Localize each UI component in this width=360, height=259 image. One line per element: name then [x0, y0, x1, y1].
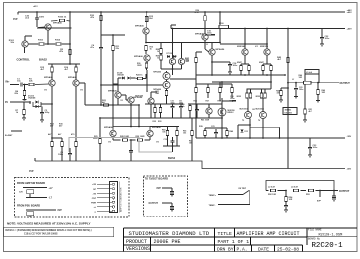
svg-text:TEMP-: TEMP- [209, 205, 216, 207]
svg-text:68R: 68R [156, 93, 160, 95]
svg-text:TEMP+: TEMP+ [209, 195, 217, 197]
svg-text:41V: 41V [255, 45, 259, 48]
svg-text:2k2: 2k2 [149, 18, 153, 20]
svg-text:1V2: 1V2 [174, 56, 177, 58]
svg-text:47k: 47k [59, 50, 63, 53]
svg-text:4k7: 4k7 [65, 68, 69, 71]
svg-text:10k: 10k [10, 42, 14, 44]
svg-text:STUDIOMASTER DIAMOND LTD: STUDIOMASTER DIAMOND LTD [129, 230, 210, 237]
svg-text:-L7: -L7 [49, 198, 53, 200]
svg-text:TITLE: TITLE [218, 231, 233, 237]
svg-text:0R22: 0R22 [236, 96, 241, 98]
svg-text:MPSA06: MPSA06 [134, 55, 144, 58]
svg-text:BIAS2: BIAS2 [168, 157, 176, 160]
svg-text:1N4148: 1N4148 [117, 73, 124, 76]
svg-text:RS TRIP: RS TRIP [239, 188, 247, 190]
svg-text:IN+: IN+ [6, 81, 11, 84]
svg-text:100n: 100n [313, 147, 318, 149]
svg-text:8VP: 8VP [317, 201, 322, 203]
svg-text:100n: 100n [325, 38, 330, 40]
svg-text:1N4148: 1N4148 [28, 97, 36, 100]
svg-text:4k7: 4k7 [48, 133, 52, 136]
svg-text:1k: 1k [157, 57, 159, 59]
svg-text:R24 1k: R24 1k [136, 74, 143, 77]
svg-text:220R: 220R [93, 138, 98, 140]
svg-text:BOARD No: BOARD No [308, 238, 321, 241]
svg-text:0R47: 0R47 [237, 61, 243, 64]
svg-text:4k7: 4k7 [58, 133, 62, 136]
svg-text:R33: R33 [158, 121, 161, 123]
svg-text:8VP: 8VP [58, 210, 63, 212]
svg-text:0R22: 0R22 [255, 96, 260, 98]
svg-text:MPSA56: MPSA56 [216, 48, 226, 51]
svg-text:0V6: 0V6 [156, 142, 159, 144]
svg-text:OUTPUT: OUTPUT [340, 82, 351, 85]
svg-text:FILE NAME: FILE NAME [308, 229, 322, 232]
svg-text:10u: 10u [17, 81, 21, 83]
svg-text:T5: T5 [242, 120, 244, 122]
svg-text:100n: 100n [207, 33, 212, 35]
svg-text:+L: +L [94, 207, 97, 209]
svg-text:R32: R32 [153, 121, 156, 123]
svg-text:25-02-88: 25-02-88 [277, 246, 299, 252]
svg-text:R105 1k: R105 1k [58, 17, 67, 19]
svg-text:10k: 10k [162, 131, 166, 133]
svg-text:330: 330 [277, 92, 280, 94]
svg-text:1k: 1k [150, 49, 153, 51]
svg-text:PRODUCT: PRODUCT [126, 239, 147, 245]
svg-text:1V2: 1V2 [120, 100, 123, 102]
svg-text:10k: 10k [183, 132, 187, 134]
svg-text:CNT: CNT [92, 198, 97, 200]
svg-text:100n: 100n [58, 154, 64, 156]
svg-text:MPSA06: MPSA06 [44, 76, 54, 79]
svg-text:+41V: +41V [33, 5, 38, 8]
svg-text:4k7: 4k7 [41, 68, 45, 71]
svg-text:FROM AMP SW BOARD: FROM AMP SW BOARD [17, 182, 45, 185]
svg-text:OP: OP [93, 189, 97, 191]
svg-text:C1B & C17 FOR TAYLOR 1000S: C1B & C17 FOR TAYLOR 1000S [24, 232, 58, 235]
svg-text:PART 1 OF 1: PART 1 OF 1 [218, 239, 250, 245]
svg-text:AMP CCT CONNECTOR: AMP CCT CONNECTOR [120, 187, 123, 212]
svg-text:8VP: 8VP [157, 188, 162, 190]
svg-text:0R47: 0R47 [259, 61, 265, 64]
svg-text:L1 6uH: L1 6uH [306, 72, 313, 74]
svg-text:D12: D12 [245, 131, 248, 133]
svg-text:DIODES: DIODES [285, 113, 293, 115]
svg-text:R53: R53 [306, 194, 311, 196]
svg-text:TO 75/SGT BOARD: TO 75/SGT BOARD [145, 177, 169, 181]
svg-text:0VP: 0VP [13, 18, 18, 21]
svg-text:12V: 12V [19, 192, 23, 194]
svg-text:D7 D8: D7 D8 [167, 53, 172, 55]
svg-text:22k: 22k [116, 48, 120, 50]
svg-text:R104: R104 [55, 39, 61, 42]
svg-text:MJ15004: MJ15004 [256, 108, 265, 111]
svg-text:10R: 10R [289, 199, 293, 201]
svg-text:DRN BY: DRN BY [217, 246, 234, 252]
svg-text:2000E PHE: 2000E PHE [154, 239, 181, 245]
svg-text:R36: R36 [194, 101, 197, 103]
svg-text:2V: 2V [206, 44, 209, 46]
svg-text:B+W67: B+W67 [5, 135, 13, 137]
svg-text:-38V: -38V [347, 136, 352, 138]
svg-text:C13: C13 [164, 139, 167, 141]
svg-text:470: 470 [71, 133, 75, 136]
svg-text:47u: 47u [90, 46, 94, 49]
svg-text:R2C20-1: R2C20-1 [312, 242, 344, 250]
svg-text:MPSA56: MPSA56 [135, 25, 145, 28]
svg-text:0V6: 0V6 [80, 90, 83, 92]
svg-text:MJE340: MJE340 [237, 45, 246, 48]
svg-text:R39: R39 [199, 126, 204, 128]
svg-text:MPSA06: MPSA06 [68, 76, 78, 79]
svg-text:2n2: 2n2 [25, 18, 30, 20]
svg-text:R40: R40 [230, 130, 235, 133]
svg-text:FROM PSU BOARD: FROM PSU BOARD [17, 204, 40, 207]
svg-text:MJE350: MJE350 [260, 46, 269, 48]
svg-text:15k: 15k [189, 142, 193, 144]
svg-text:DATE: DATE [258, 246, 269, 252]
svg-text:L4 6uH: L4 6uH [291, 186, 298, 189]
svg-text:0V6: 0V6 [44, 90, 47, 92]
svg-text:22k: 22k [14, 93, 18, 95]
svg-text:100n: 100n [230, 98, 235, 100]
svg-text:MPSA06: MPSA06 [153, 71, 161, 74]
svg-text:R2C20-1.OSM: R2C20-1.OSM [319, 233, 343, 237]
svg-text:-VE: -VE [93, 193, 97, 195]
svg-text:4k7: 4k7 [277, 58, 281, 61]
svg-text:OUTPUT: OUTPUT [339, 190, 350, 193]
svg-text:BIAS2: BIAS2 [39, 58, 47, 62]
svg-text:100n: 100n [299, 89, 304, 91]
svg-text:NOTE: VOLTAGES MEASURED AT 230: NOTE: VOLTAGES MEASURED AT 230V±10% A.C.… [7, 221, 91, 225]
svg-text:0V: 0V [5, 101, 8, 104]
svg-text:MPSA06: MPSA06 [195, 33, 205, 36]
svg-text:AMPLIFIER AMP CIRCUIT: AMPLIFIER AMP CIRCUIT [237, 231, 300, 237]
svg-text:VERSIONS: VERSIONS [126, 246, 150, 252]
svg-text:L2 6uH: L2 6uH [268, 187, 275, 189]
svg-text:470R: 470R [194, 11, 199, 14]
svg-text:150R: 150R [137, 65, 142, 67]
svg-text:+VE: +VE [92, 184, 97, 186]
svg-text:T6: T6 [258, 120, 260, 122]
svg-text:BD912: BD912 [228, 112, 234, 114]
svg-text:1k: 1k [157, 51, 159, 53]
svg-text:0V6: 0V6 [108, 142, 111, 144]
svg-text:MJE340: MJE340 [135, 95, 144, 98]
svg-text:10R: 10R [322, 92, 326, 94]
svg-text:R103: R103 [38, 40, 44, 42]
svg-text:10R: 10R [299, 77, 303, 79]
svg-text:0V: 0V [292, 79, 295, 81]
svg-text:100n: 100n [233, 65, 238, 67]
svg-text:-L: -L [94, 212, 97, 214]
svg-text:22k: 22k [185, 60, 189, 62]
svg-text:100V: 100V [39, 17, 45, 19]
svg-text:100p: 100p [45, 112, 50, 114]
svg-text:R41 100R: R41 100R [201, 119, 210, 122]
svg-text:R100: R100 [219, 23, 224, 25]
svg-text:OUTPUT: OUTPUT [149, 203, 159, 205]
svg-text:-40V: -40V [347, 168, 352, 171]
svg-text:+L7: +L7 [49, 188, 54, 190]
svg-text:P.A.: P.A. [237, 246, 248, 252]
svg-text:47k: 47k [90, 16, 94, 19]
svg-text:+40V: +40V [347, 11, 353, 14]
svg-text:22k: 22k [29, 81, 33, 83]
svg-text:1k: 1k [183, 106, 185, 108]
svg-text:R37: R37 [206, 101, 209, 103]
svg-text:PWR: PWR [91, 202, 96, 204]
svg-text:+40V: +40V [347, 28, 353, 31]
svg-text:4k7: 4k7 [309, 110, 312, 113]
svg-text:R2C20-1 = (STANDARD) NEW BOARD: R2C20-1 = (STANDARD) NEW BOARD NUMBER R2… [6, 229, 92, 232]
svg-text:1k: 1k [16, 112, 19, 114]
svg-text:MPSA06: MPSA06 [108, 90, 118, 93]
svg-text:MPSA56: MPSA56 [104, 126, 114, 129]
svg-text:0VP: 0VP [29, 170, 34, 173]
svg-text:R38: R38 [218, 101, 221, 103]
svg-text:1N5402: 1N5402 [285, 109, 292, 112]
svg-text:R52 10R: R52 10R [268, 194, 276, 196]
svg-text:CONTROL: CONTROL [17, 58, 31, 62]
svg-text:MJ15003: MJ15003 [240, 109, 249, 111]
